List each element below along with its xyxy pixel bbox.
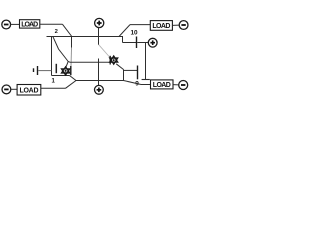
terminal circle plus top <box>95 18 104 27</box>
plus sign right <box>150 40 155 45</box>
diagonal BL wire up to bottom bus <box>66 81 77 89</box>
box bottom edge wire <box>52 75 70 77</box>
capacitor C2 plate <box>136 37 138 49</box>
terminal circle minus top-right <box>179 21 188 30</box>
terminal circle plus right <box>148 38 157 47</box>
terminal circle minus top-left <box>2 20 11 29</box>
LOAD box bottom-left <box>17 85 41 96</box>
minus sign bottom-right <box>181 84 185 86</box>
SCR2 diagonal lead <box>116 64 123 70</box>
wire LOAD TR to terminal <box>172 24 179 26</box>
wire plus top down <box>98 28 100 45</box>
short link into star1 <box>66 62 68 68</box>
svg-text:LOAD: LOAD <box>153 82 171 89</box>
SCR2 lead down to bottom bus <box>123 70 125 81</box>
diagonal bottom bus to LOAD BR wire <box>124 81 142 85</box>
terminal circle minus bottom-left <box>2 85 11 94</box>
wire to capacitor C2 <box>123 42 137 44</box>
top bus wire <box>47 36 124 38</box>
LOAD box bottom-right <box>151 80 174 89</box>
wire LOAD BR to terminal <box>173 84 179 86</box>
svg-text:LOAD: LOAD <box>21 22 38 29</box>
end T-bar <box>142 79 150 81</box>
thyristor SCR2 star <box>110 56 118 64</box>
wire terminal to LOAD BL <box>11 88 17 90</box>
LOAD box top-right <box>150 21 172 31</box>
SCR2 cathode bar <box>109 56 111 65</box>
wire C2 to plus terminal right <box>137 42 148 44</box>
diagonal wire down to bus node <box>63 24 72 36</box>
wire LOAD BL right <box>41 87 66 89</box>
plus sign top <box>97 21 102 26</box>
svg-text:LOAD: LOAD <box>20 88 39 95</box>
wire SCR2 node to C3 <box>124 69 138 71</box>
wire LOAD TL to diagonal <box>40 23 63 25</box>
minus sign bottom-left <box>4 89 8 91</box>
box left edge wire <box>51 37 53 76</box>
SCR1 left bar <box>55 64 57 73</box>
anode lead SCR1 polyline <box>53 37 68 62</box>
faint anode link SCR2 <box>99 45 110 58</box>
wire to LOAD BR <box>141 84 151 86</box>
faint cathode link SCR1 <box>70 48 73 67</box>
capacitor C1 short plate <box>33 68 35 72</box>
vertical wire to plus bottom <box>98 59 100 86</box>
vertical from bus down right side <box>122 37 124 43</box>
capacitor C3 plate <box>137 66 139 80</box>
svg-text:LOAD: LOAD <box>152 23 170 30</box>
minus sign top-left <box>4 24 9 26</box>
plus sign bottom <box>97 88 102 93</box>
terminal circle plus bottom <box>95 85 104 94</box>
wire to LOAD TR <box>130 24 150 26</box>
LOAD box top-left <box>20 20 40 28</box>
bottom bus wire <box>76 80 124 82</box>
thyristor SCR1 star <box>62 67 70 75</box>
vertical wire from bus at x72 <box>71 37 73 48</box>
SCR1 cathode bar <box>70 66 72 75</box>
svg-text:10: 10 <box>130 29 138 36</box>
minus sign top-right <box>181 24 185 26</box>
wire C1 to SCR1 <box>38 70 51 72</box>
wire terminal to LOAD box TL <box>11 23 20 25</box>
gate line to SCR2 <box>68 61 111 62</box>
diagonal bus to node 10 <box>119 25 130 37</box>
connector diagonal to bottom bus <box>70 76 77 81</box>
svg-text:2: 2 <box>55 29 58 35</box>
capacitor C1 tall plate <box>37 66 39 75</box>
vertical lead down from wire <box>145 43 147 80</box>
terminal circle minus bottom-right <box>179 81 188 90</box>
